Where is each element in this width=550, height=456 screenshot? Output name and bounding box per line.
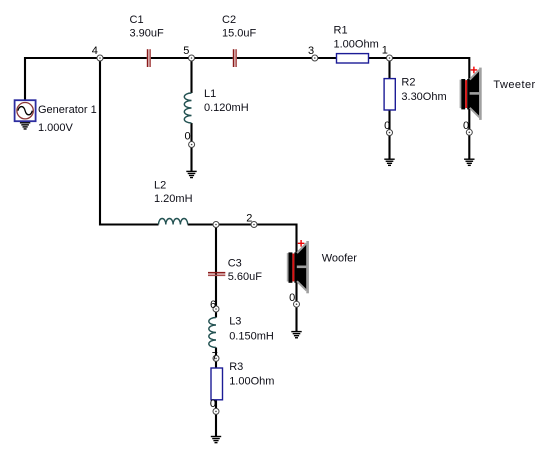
node 0 under R3 — [213, 408, 219, 414]
node 5 — [189, 55, 195, 61]
svg-text:R3: R3 — [229, 361, 243, 373]
ground under R3 — [211, 437, 221, 443]
svg-text:Tweeter: Tweeter — [493, 79, 535, 91]
node 6 — [213, 306, 219, 312]
svg-text:4: 4 — [92, 45, 98, 57]
wire node 4 down to L2 — [100, 58, 159, 225]
svg-text:6: 6 — [210, 299, 216, 311]
wire L1 to node 0 and ground — [190, 123, 192, 171]
svg-text:C3: C3 — [228, 257, 242, 269]
svg-text:Woofer: Woofer — [322, 253, 358, 265]
svg-text:L1: L1 — [204, 88, 216, 100]
node 0 under woofer — [294, 301, 300, 307]
ground under tweeter — [464, 159, 474, 165]
resistor R1 — [337, 54, 369, 63]
svg-text:R2: R2 — [401, 77, 415, 89]
svg-text:0: 0 — [289, 292, 295, 304]
svg-text:C1: C1 — [130, 14, 144, 26]
svg-text:3: 3 — [308, 45, 314, 57]
node 3 — [312, 55, 318, 61]
node 2 — [251, 222, 257, 228]
svg-text:5.60uF: 5.60uF — [228, 271, 263, 283]
wire L2 to node 2 and woofer — [188, 225, 297, 332]
ground under L1 — [186, 171, 196, 177]
svg-text:L2: L2 — [154, 180, 166, 192]
svg-text:3.30Ohm: 3.30Ohm — [401, 91, 446, 103]
wire node 5 to C2 — [192, 57, 233, 59]
svg-text:R1: R1 — [334, 25, 348, 37]
node junction L2 C3 — [213, 222, 219, 228]
inductor L1 — [184, 93, 191, 123]
wire node 5 down to L1 — [190, 58, 192, 93]
wire generator to node 4 — [25, 58, 100, 101]
node 0 under R2 — [387, 130, 393, 136]
svg-text:C2: C2 — [222, 14, 236, 26]
svg-text:1.00Ohm: 1.00Ohm — [334, 38, 379, 50]
wire node 6 to L3 — [215, 309, 217, 318]
node 4 — [97, 55, 103, 61]
wire node 3 through R1 to node 1 — [315, 57, 390, 59]
svg-text:Generator 1: Generator 1 — [38, 104, 97, 116]
wire junction through C3 to node 6 — [215, 225, 217, 310]
speaker Tweeter — [460, 67, 482, 120]
node 0 under L1 — [189, 142, 195, 148]
wire node 1 to tweeter and tweeter ground — [390, 58, 470, 159]
inductor L3 — [209, 318, 216, 348]
ground under woofer — [291, 332, 301, 338]
svg-text:3.90uF: 3.90uF — [130, 27, 165, 39]
ground under R2 — [384, 159, 394, 165]
node 7 — [213, 355, 219, 361]
wire node 1 through R2 to ground — [388, 58, 390, 159]
generator Generator 1 — [15, 100, 36, 121]
inductor L2 — [159, 218, 188, 224]
svg-text:0: 0 — [210, 398, 216, 410]
node 1 — [387, 55, 393, 61]
svg-text:0.150mH: 0.150mH — [229, 331, 274, 343]
ground under generator — [20, 123, 30, 129]
wire C1 to node 5 — [151, 57, 192, 59]
wire node 4 to C1 — [100, 57, 147, 59]
wire C2 to node 3 — [237, 57, 315, 59]
svg-text:L3: L3 — [229, 316, 241, 328]
svg-text:1: 1 — [382, 44, 388, 56]
svg-text:0: 0 — [185, 131, 191, 143]
capacitor C1 — [147, 49, 151, 67]
svg-text:1.000V: 1.000V — [38, 122, 74, 134]
svg-text:0.120mH: 0.120mH — [204, 102, 249, 114]
node 0 under tweeter — [466, 129, 472, 135]
svg-text:2: 2 — [246, 212, 252, 224]
capacitor C2 — [233, 49, 237, 67]
svg-text:0: 0 — [463, 120, 469, 132]
svg-text:5: 5 — [183, 45, 189, 57]
svg-text:15.0uF: 15.0uF — [222, 27, 257, 39]
svg-text:0: 0 — [384, 120, 390, 132]
svg-text:1.20mH: 1.20mH — [154, 193, 193, 205]
wire L3 to node 7 — [215, 348, 217, 359]
resistor R2 — [384, 79, 395, 110]
capacitor C3 — [208, 272, 225, 276]
svg-text:1.00Ohm: 1.00Ohm — [229, 375, 274, 387]
resistor R3 — [211, 368, 223, 400]
wire node 7 through R3 to ground — [215, 358, 217, 437]
speaker Woofer — [287, 240, 309, 293]
svg-text:7: 7 — [212, 350, 218, 362]
